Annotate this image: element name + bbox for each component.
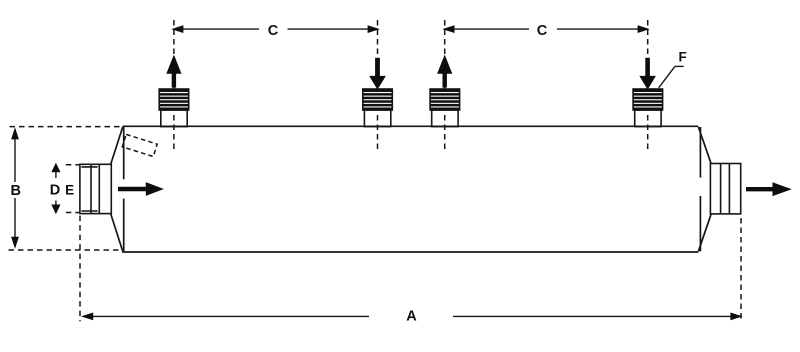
svg-text:E: E [65,182,74,197]
svg-text:D: D [50,183,60,199]
svg-text:C: C [268,23,279,39]
svg-text:B: B [11,183,21,199]
svg-text:C: C [537,23,548,39]
svg-text:A: A [406,309,417,325]
svg-text:F: F [678,50,686,65]
